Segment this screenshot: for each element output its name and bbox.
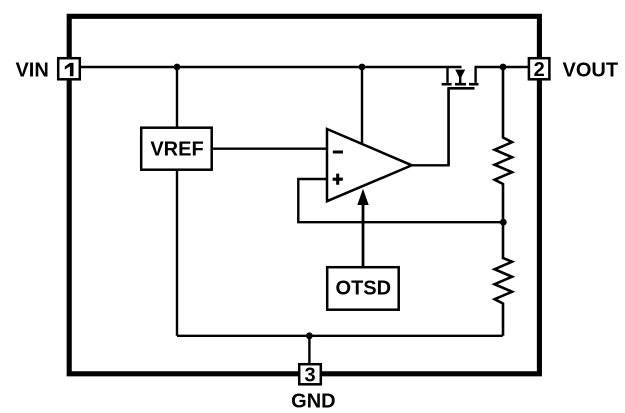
svg-text:GND: GND [291, 391, 335, 413]
svg-text:VREF: VREF [150, 139, 203, 161]
svg-text:VIN: VIN [15, 60, 48, 82]
svg-text:VOUT: VOUT [563, 60, 619, 82]
svg-text:3: 3 [304, 365, 315, 387]
svg-text:2: 2 [534, 59, 545, 81]
svg-text:OTSD: OTSD [336, 278, 392, 300]
